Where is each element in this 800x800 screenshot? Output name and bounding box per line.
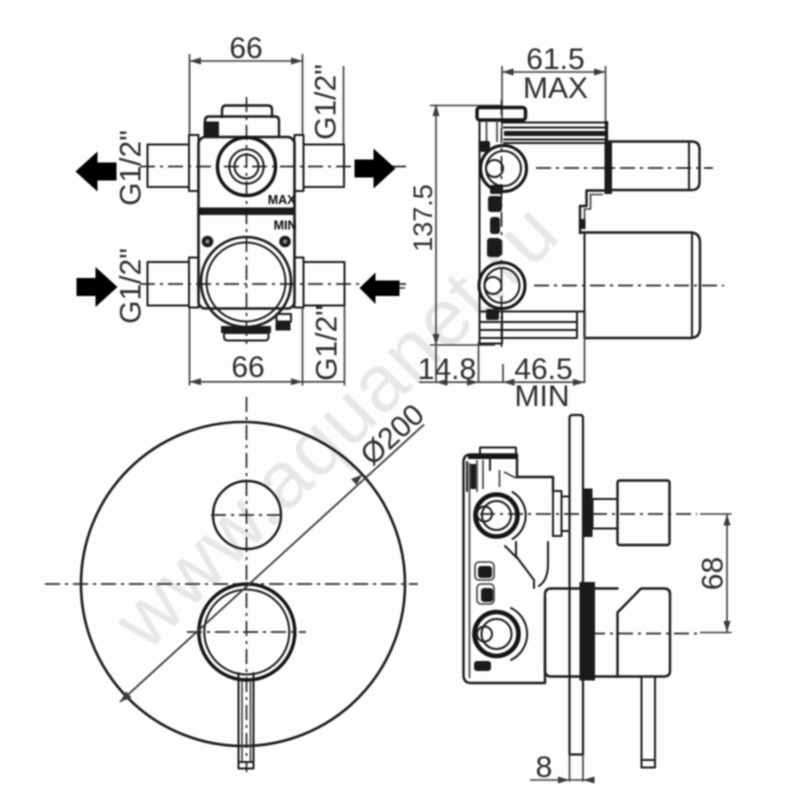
outlet stub end face <box>688 143 690 189</box>
pipe bottom right <box>304 262 345 306</box>
dim 68 line <box>726 514 728 633</box>
centerline diverter axis <box>480 513 697 515</box>
flow arrow bottom right <box>360 273 400 305</box>
step tab dark <box>579 219 586 229</box>
svg-text:MIN: MIN <box>515 380 570 413</box>
body inner edge <box>469 463 471 678</box>
svg-text:137.5: 137.5 <box>408 184 438 252</box>
flange top right <box>295 135 304 191</box>
thread dark band <box>504 131 607 136</box>
bottom foot bracket <box>480 312 585 339</box>
body top-left clip <box>467 455 490 492</box>
flow arrow top left <box>76 152 117 192</box>
diameter arrow upper right <box>351 475 363 486</box>
flange bottom left <box>189 258 199 308</box>
plate left edge <box>479 120 481 344</box>
tower top dark cap <box>468 454 516 459</box>
svg-text:66: 66 <box>231 351 264 384</box>
flange bottom right <box>295 258 304 308</box>
svg-text:MAX: MAX <box>268 193 296 207</box>
ext line right top <box>302 54 304 136</box>
diverter knob circle <box>213 481 281 549</box>
diameter arrow lower left <box>120 692 132 703</box>
clip dark bar <box>471 464 477 489</box>
top port outer ring <box>218 138 276 196</box>
handle outer ring <box>199 584 295 680</box>
top port nipple <box>486 160 503 177</box>
ext line left top <box>189 54 191 136</box>
svg-text:MAX: MAX <box>523 72 588 105</box>
dim 8 ext lines <box>570 755 584 782</box>
clip outlines <box>475 562 494 580</box>
flow arrow top right <box>355 149 396 189</box>
diverter stem <box>593 499 618 529</box>
diverter stem collar <box>553 491 562 536</box>
dim 66 top line <box>190 60 303 62</box>
ext line 61.5 left <box>501 66 503 129</box>
divider band dark <box>200 208 294 216</box>
top port circle side <box>481 146 527 192</box>
handle centerline <box>187 631 306 633</box>
body cap step <box>205 117 279 138</box>
thread grooves <box>504 128 607 144</box>
plate cap dark <box>477 108 526 121</box>
web braces <box>505 542 548 588</box>
step between blocks <box>580 191 607 234</box>
diverter knob side <box>618 481 670 546</box>
centerline horizontal <box>45 583 418 585</box>
plate circle <box>81 422 405 746</box>
svg-text:G1/2": G1/2" <box>115 130 148 206</box>
watermark www.aquanet.ru <box>96 186 575 665</box>
view1: rough valve front view <box>76 32 407 386</box>
dim 68 ext lines <box>700 514 732 633</box>
wall section dark band <box>605 141 613 194</box>
lower block / cartridge cylinder <box>580 233 700 339</box>
wall plate side <box>570 415 584 755</box>
screw left <box>202 236 214 248</box>
svg-text:G1/2": G1/2" <box>310 64 343 140</box>
ext line 137.5 top <box>430 105 501 107</box>
bottom port circle side <box>479 263 525 309</box>
lever inner lines <box>242 680 251 762</box>
view2: rough valve side view <box>408 43 724 413</box>
pipe bottom left <box>148 262 190 306</box>
cartridge end face <box>691 235 693 337</box>
min adjuster tab <box>277 314 292 322</box>
port axis vertical centerline <box>501 100 503 352</box>
svg-text:66: 66 <box>229 32 262 65</box>
diameter dim line <box>120 425 424 703</box>
below port clip dark <box>474 661 491 671</box>
pipe top right <box>304 145 345 188</box>
handle inner ring <box>204 590 289 675</box>
valve body side outline <box>464 455 554 684</box>
cartridge housing side <box>545 589 618 677</box>
body top tab <box>480 448 516 455</box>
outlet stub side <box>606 142 700 191</box>
top port boss arc <box>513 492 526 539</box>
plate bottom <box>480 312 503 344</box>
top port nipple <box>477 507 492 522</box>
centerline bottom port side <box>534 285 724 287</box>
bottom dims ext lines <box>436 312 585 382</box>
bottom port nipple <box>485 277 502 294</box>
dim 66 bottom line <box>190 381 345 383</box>
svg-text:MIN: MIN <box>274 219 297 233</box>
diverter centerline <box>211 514 283 516</box>
ext lines bottom <box>189 308 191 386</box>
pipe top left <box>148 145 190 188</box>
cartridge outer circle <box>201 237 291 327</box>
svg-text:G1/2": G1/2" <box>311 305 344 381</box>
dim 61.5 line <box>502 71 606 73</box>
dim 137.5 line <box>435 105 437 346</box>
cap clip dark <box>204 122 220 137</box>
lever rod <box>642 677 656 768</box>
dim 8 baseline <box>530 779 591 781</box>
svg-text:www.aquanet.ru: www.aquanet.ru <box>96 186 575 665</box>
screw right <box>279 236 291 248</box>
view3: trim plate front view <box>45 397 431 772</box>
svg-text:8: 8 <box>536 751 553 784</box>
plate column details <box>487 120 498 145</box>
ext line G1/2 top right <box>343 66 345 144</box>
bottom port clip dark <box>486 309 499 320</box>
lower block left edge <box>584 233 586 312</box>
centerline vertical <box>246 397 248 772</box>
svg-text:G1/2": G1/2" <box>115 248 148 324</box>
upper block top edge <box>502 122 608 124</box>
flange top left <box>189 135 199 191</box>
bottom dims baseline <box>419 381 586 383</box>
centerline bottom ports <box>140 283 406 285</box>
top port circle <box>476 495 518 537</box>
neck clips dark <box>488 196 502 212</box>
bottom port circle <box>475 612 519 656</box>
body cap top <box>222 106 272 118</box>
tower lines <box>477 460 516 492</box>
bottom stub dark band <box>221 326 271 333</box>
handle side <box>618 589 671 677</box>
top port clip dark <box>480 141 490 152</box>
top port inner ring <box>235 155 259 179</box>
lever bar <box>239 673 254 769</box>
bottom stub <box>224 333 269 341</box>
view4: assembled side view <box>464 415 732 784</box>
centerline top port side <box>536 167 713 169</box>
plate seal top dark <box>583 489 593 538</box>
centerline vertical <box>246 97 248 349</box>
cartridge inner circle <box>207 243 286 322</box>
ext line 137.5 bottom <box>430 344 495 346</box>
svg-text:68: 68 <box>697 557 730 590</box>
main body <box>199 137 295 309</box>
flow arrow bottom left <box>77 267 118 307</box>
top port middle ring <box>229 149 263 183</box>
inter-port clips dark <box>478 566 492 578</box>
plate seal bottom dark <box>580 582 596 681</box>
step inner line <box>585 195 604 230</box>
bottom port nipple <box>477 627 492 642</box>
ext line 61.5 right <box>605 66 607 125</box>
centerline top ports <box>140 166 406 168</box>
centerline handle axis <box>590 633 698 635</box>
bottom port boss arc <box>511 608 527 660</box>
upper block right edge <box>605 123 608 191</box>
